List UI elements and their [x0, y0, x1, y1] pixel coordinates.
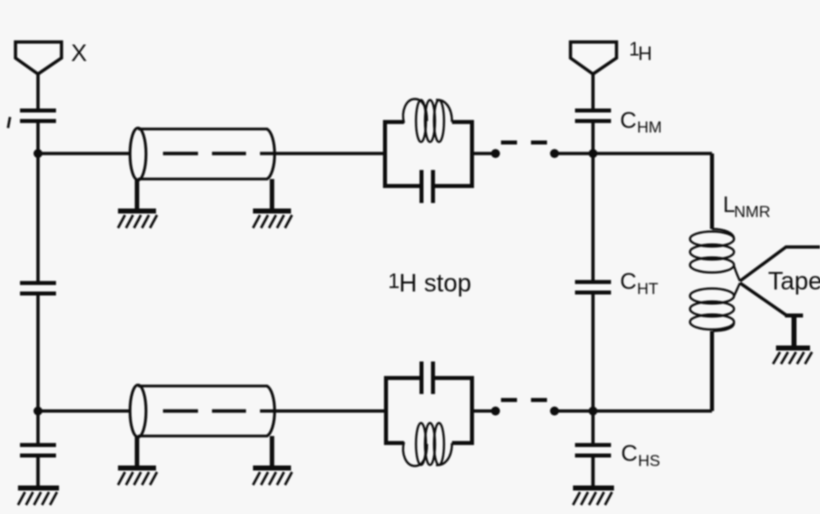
- inductor tank1 (coil on top edge): [403, 99, 452, 142]
- capacitor C_HM: [575, 111, 611, 122]
- ground tap: [773, 316, 812, 365]
- node right-top junction: [589, 149, 598, 158]
- svg-text:H stop: H stop: [399, 270, 471, 298]
- ground coax-top right: [253, 179, 292, 228]
- wire far-right down to coil: [710, 154, 714, 230]
- label C_HS: [621, 440, 660, 470]
- inductor L_NMR (lower half): [690, 283, 740, 331]
- wire tank2 to node: [472, 409, 494, 412]
- capacitor tank2 (on top edge): [422, 362, 434, 395]
- inductor tank2 (coil on bottom edge): [403, 423, 452, 466]
- node right-bottom junction: [589, 407, 598, 416]
- wire tap upper: [740, 247, 820, 281]
- ground coax-bottom right: [253, 436, 292, 485]
- svg-text:H: H: [638, 43, 652, 65]
- svg-text:HS: HS: [638, 453, 660, 470]
- wire top jumper dashes: [501, 141, 547, 145]
- label 1H stop: [388, 270, 471, 298]
- label C_HM: [620, 107, 662, 137]
- wire to right bottom ground: [591, 456, 595, 487]
- capacitor CL2 (left column middle): [20, 283, 56, 294]
- node top jumper left: [491, 149, 500, 158]
- inductor L_NMR (upper half): [690, 229, 740, 281]
- svg-text:X: X: [71, 40, 87, 67]
- capacitor CL3 (left column bottom): [20, 445, 56, 456]
- svg-text:HT: HT: [637, 281, 659, 298]
- wire antenna X stem: [36, 74, 39, 109]
- ground coax-bottom left: [118, 437, 157, 485]
- node bottom jumper left: [491, 407, 500, 416]
- wire tap lower: [740, 283, 786, 315]
- capacitor C_HS: [575, 445, 611, 456]
- wire bottom row right: [555, 409, 713, 412]
- antenna X: [16, 42, 62, 74]
- capacitor tank1 (on bottom edge): [422, 170, 434, 203]
- svg-text:HM: HM: [637, 120, 662, 137]
- wire coax bottom exit: [260, 409, 386, 412]
- coax (top) center conductor dashes: [163, 152, 246, 156]
- wire right column lower: [591, 293, 594, 444]
- wire left column lower: [36, 294, 39, 444]
- wire to left bottom ground: [36, 456, 40, 487]
- svg-text:NMR: NMR: [734, 204, 770, 221]
- wire coax top exit: [260, 152, 385, 155]
- svg-text:C: C: [620, 107, 637, 133]
- ground coax-top left: [118, 180, 157, 228]
- label C_HT: [620, 268, 659, 298]
- antenna 1H: [571, 42, 617, 74]
- wire bottom row left: [38, 409, 130, 412]
- wire antenna 1H stem: [591, 74, 594, 109]
- label tick (cropped char at left edge): [8, 117, 10, 128]
- wire top row left: [38, 152, 130, 155]
- svg-text:C: C: [621, 440, 638, 466]
- wire left column upper: [36, 121, 39, 281]
- label 1H: [629, 40, 652, 66]
- wire tank1 to node: [472, 152, 494, 155]
- tank circuit 1 (1H stop, top) box: [385, 122, 472, 186]
- node left-top junction: [34, 149, 43, 158]
- capacitor C_HT: [575, 282, 611, 293]
- ground right-bottom: [573, 488, 614, 505]
- svg-text:C: C: [620, 268, 637, 294]
- svg-text:Tape: Tape: [768, 268, 820, 296]
- coax cable (top) body: [130, 128, 275, 180]
- wire right column upper: [591, 121, 594, 280]
- node left-bottom junction: [34, 407, 43, 416]
- wire coil bottom lead: [710, 331, 714, 411]
- coax (bottom) center conductor dashes: [163, 409, 246, 413]
- wire bottom jumper dashes: [501, 398, 547, 402]
- node bottom jumper right: [550, 407, 559, 416]
- svg-text:1: 1: [388, 270, 400, 293]
- tank circuit 2 (1H stop, bottom) box: [386, 378, 472, 443]
- node top jumper right: [550, 149, 559, 158]
- wire top row right: [555, 152, 713, 155]
- label L_NMR: [723, 192, 770, 221]
- coax cable (bottom) body: [130, 385, 275, 437]
- ground left-bottom: [18, 488, 59, 505]
- capacitor CX (X tuning, top-left): [20, 111, 56, 122]
